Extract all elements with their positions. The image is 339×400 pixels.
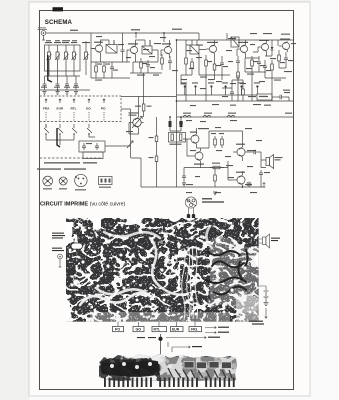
- resistor R7: [237, 68, 240, 101]
- wire osc vertical: [143, 73, 145, 117]
- IF transformer TR3: [190, 40, 199, 54]
- labels right-top extra: [149, 33, 290, 121]
- capacitor C8: [146, 60, 150, 73]
- ground G3: [65, 92, 69, 95]
- wire stage2 bottom: [130, 62, 162, 73]
- label vers +9V: [205, 326, 229, 328]
- trimmer arrows coils: [47, 54, 89, 60]
- dashed separator: [40, 157, 104, 159]
- speaker symbol right: [259, 234, 270, 248]
- capacitor C20 electrolytic: [259, 170, 263, 178]
- top right bus: [177, 39, 294, 41]
- lamp symbol LP1: [247, 182, 251, 187]
- resistor R20: [180, 134, 182, 141]
- node D: [176, 39, 178, 41]
- label P2: [259, 96, 267, 97]
- node F: [242, 186, 244, 188]
- transistor T4: [206, 45, 217, 54]
- label T5: [228, 38, 248, 43]
- label C24: [283, 90, 290, 91]
- photo light zone right: [160, 357, 237, 381]
- label T6: [259, 40, 269, 41]
- node A: [135, 32, 137, 34]
- resistor R12: [191, 58, 194, 75]
- wire ground row: [40, 76, 90, 90]
- mic solder nubs: [187, 214, 195, 219]
- label HP right: [271, 238, 280, 242]
- capacitor C9: [168, 56, 172, 70]
- transistor case view Q3: [75, 174, 87, 186]
- resistor R9: [278, 50, 281, 68]
- transistor T10: [233, 147, 245, 157]
- contact set K2: [58, 124, 63, 140]
- wire c24 to frame: [285, 97, 289, 101]
- lighter copper zone right: [207, 237, 258, 312]
- svg-text:GO: GO: [86, 107, 91, 111]
- svg-text:PO: PO: [115, 328, 120, 332]
- labels above coils: [45, 40, 90, 43]
- jack J1 prise casque: [41, 31, 46, 40]
- wire stage6: [253, 40, 278, 56]
- bus oscillator mid: [121, 96, 177, 98]
- transistor T9: [191, 151, 203, 161]
- inductor L4: [203, 115, 211, 117]
- label T1: [94, 42, 103, 43]
- label box: [86, 143, 92, 144]
- capacitor C16: [82, 143, 86, 150]
- lighter strip bottom: [90, 312, 230, 322]
- node B: [163, 32, 165, 34]
- coil L2: [85, 41, 88, 75]
- transistor T8: [187, 134, 199, 144]
- pushbutton box GO: [133, 327, 144, 332]
- transistor case view Q2: [59, 177, 67, 185]
- label prise antenne left: [52, 233, 65, 239]
- wire stage5: [227, 33, 246, 58]
- resistor R18: [142, 104, 145, 111]
- IF transformer TR4: [231, 37, 239, 47]
- contact set K3: [72, 124, 77, 140]
- label T8: [190, 128, 209, 133]
- capacitor C21: [182, 170, 186, 183]
- resistor R6: [213, 60, 216, 80]
- resistor R2: [103, 62, 106, 78]
- clavier dashed box SW1: [40, 96, 122, 122]
- label T12: [126, 112, 139, 132]
- node C: [57, 89, 59, 91]
- capacitor C24: [272, 95, 285, 99]
- label pile 9V: [249, 321, 264, 325]
- label T10: [236, 144, 256, 152]
- resistor R10: [271, 60, 274, 78]
- resistor R14: [214, 136, 217, 148]
- label mid amp: [211, 133, 224, 151]
- labels under case views: [43, 187, 111, 191]
- svg-text:PO: PO: [101, 107, 106, 111]
- wire c21: [184, 168, 201, 171]
- connector comb: [104, 378, 235, 388]
- wire C23: [170, 128, 181, 131]
- label R21 R22: [149, 137, 154, 158]
- label transistors legend: [37, 168, 86, 169]
- labels stage2: [137, 63, 159, 76]
- coil branch L1d: [73, 45, 76, 71]
- mid right bus: [177, 100, 294, 102]
- switch arrow S3: [73, 99, 75, 103]
- labels stage4: [200, 61, 228, 89]
- ground G5: [182, 183, 186, 186]
- svg-text:GO: GO: [136, 328, 142, 332]
- PCB photo component side: [99, 354, 237, 381]
- white strip left: [66, 222, 73, 239]
- long vertical wire V1: [176, 40, 178, 187]
- capacitor C23 dark: [180, 121, 183, 127]
- tuning box L1: [45, 45, 81, 71]
- bottom rule: [40, 389, 295, 391]
- resistor R15: [221, 136, 224, 148]
- plug symbol PL1: [263, 183, 266, 187]
- speaker LS1: [266, 155, 274, 169]
- label C20: [264, 172, 270, 173]
- wire misc1: [181, 45, 192, 101]
- trace bundle center: [182, 246, 198, 320]
- capacitor C15: [230, 88, 234, 101]
- svg-text:EUR: EUR: [57, 107, 64, 111]
- box relay: [83, 152, 103, 159]
- wire to amp: [105, 109, 131, 158]
- contact set K4: [87, 124, 92, 135]
- capacitor C11: [236, 56, 240, 68]
- wire stage4: [186, 33, 215, 60]
- diode DZ symbol: [159, 334, 163, 355]
- PCB copper plane: [66, 218, 259, 322]
- transistor T3: [161, 46, 172, 55]
- wire feedback vertical: [156, 117, 158, 187]
- IF transformer TR1: [106, 40, 117, 53]
- photo diagonal traces: [168, 368, 232, 378]
- labels bus right: [222, 83, 268, 97]
- labels bus2: [183, 113, 292, 114]
- trimmer arrow P1: [127, 141, 133, 148]
- label DZ C19: [137, 337, 156, 338]
- coil branch L1a: [48, 45, 51, 71]
- label prise casque left: [52, 248, 64, 252]
- wire bottom joiner: [131, 158, 177, 187]
- arrow pile: [265, 308, 267, 318]
- wire stage2: [127, 33, 158, 62]
- svg-text:SCHEMA: SCHEMA: [45, 19, 73, 26]
- label bias: [170, 144, 182, 145]
- capacitor C4: [56, 80, 60, 90]
- photo chip row: [184, 362, 232, 369]
- wire stage1 bottom: [91, 62, 130, 78]
- wire thick feed: [48, 55, 52, 82]
- border frame: [40, 11, 294, 390]
- capacitor C13: [284, 52, 288, 68]
- diode pack DZ: [99, 177, 113, 185]
- node E: [176, 100, 178, 102]
- microphone capsule M1: [185, 197, 196, 208]
- resistor R11: [185, 54, 188, 75]
- labels stage1: [95, 64, 118, 81]
- label R18: [135, 106, 152, 107]
- coil branch L1c: [65, 45, 68, 71]
- arrow vers HP bottom: [172, 346, 202, 348]
- transistor case view Q1: [43, 176, 53, 186]
- label T9: [194, 164, 204, 165]
- photo pads: [110, 358, 172, 369]
- transistor T12: [129, 117, 142, 129]
- wire T12 net: [129, 97, 144, 135]
- wire clavier joins: [46, 124, 95, 145]
- wire c20: [260, 178, 262, 187]
- svg-text:CIRCUIT IMPRIME (vu côté cuivr: CIRCUIT IMPRIME (vu côté cuivre): [40, 202, 125, 208]
- resistor R16 horizontal: [210, 166, 224, 169]
- capacitor C18: [179, 117, 183, 128]
- capacitor C22 dark: [169, 121, 172, 127]
- node H: [180, 116, 182, 118]
- switch arrow S1: [45, 99, 47, 103]
- wire stage7 bottom: [265, 51, 288, 102]
- label clavier legend: [44, 162, 97, 163]
- svg-text:FRA: FRA: [43, 107, 50, 111]
- ground G4: [74, 92, 78, 95]
- labels terminal row: [181, 82, 260, 83]
- label prise casque: [38, 27, 48, 30]
- wire misc2: [222, 75, 243, 88]
- wire stage3: [161, 33, 170, 58]
- diode D1: [271, 42, 274, 56]
- wire amp net: [183, 128, 243, 187]
- capacitor C5: [65, 80, 69, 90]
- capacitor C17: [95, 143, 99, 150]
- label T4: [196, 42, 218, 46]
- resistor R13: [242, 86, 245, 101]
- switch arrow S5: [103, 99, 105, 103]
- bottom amp bus: [177, 168, 266, 188]
- coil branch L1b: [56, 45, 59, 71]
- lighter corner bottom right: [236, 294, 259, 321]
- transistor T6: [258, 43, 269, 52]
- switch contacts row: [46, 112, 104, 121]
- label T11: [236, 172, 245, 173]
- transistor T5: [237, 45, 248, 54]
- capacitor C3: [43, 80, 47, 90]
- transistor T7: [279, 42, 290, 51]
- svg-text:RTL: RTL: [71, 107, 77, 111]
- ground G2: [56, 92, 60, 95]
- wire battery right: [259, 286, 266, 290]
- transistor T2: [127, 46, 138, 55]
- oval pad P1: [71, 243, 83, 249]
- ground G6: [213, 192, 217, 195]
- resistor R8: [251, 56, 254, 72]
- label T7: [280, 39, 296, 45]
- wire stage5 bottom: [245, 58, 266, 101]
- capacitor C6: [74, 80, 78, 90]
- label prise magnetophone: [202, 198, 224, 202]
- white flow channels: [80, 226, 212, 305]
- pushbutton box RTL: [152, 327, 167, 332]
- capacitor C10: [220, 56, 224, 75]
- photo dark bar left: [101, 361, 159, 377]
- copper pads: [69, 221, 255, 316]
- wire speaker net: [245, 152, 266, 168]
- switch arrow S4: [88, 99, 90, 103]
- white slot top: [93, 218, 101, 230]
- labels stage7: [266, 60, 293, 81]
- resistor R17: [214, 172, 217, 187]
- terminal stubs: [185, 88, 258, 95]
- svg-text:RTL: RTL: [154, 328, 161, 332]
- resistor R22: [155, 156, 158, 162]
- leader lines buttons: [118, 322, 195, 327]
- IF transformer TR2: [142, 40, 152, 54]
- bias box amp: [169, 133, 186, 143]
- copper edge scallops: [66, 218, 259, 321]
- capacitor C7: [110, 62, 114, 78]
- arrow vers +9V bottom: [166, 336, 220, 338]
- transistor T1: [92, 44, 103, 53]
- label T3: [162, 43, 171, 44]
- contact set K1: [44, 124, 49, 140]
- wire stub bottom: [168, 342, 172, 352]
- labels sprinkle: [96, 36, 290, 193]
- node G: [169, 116, 171, 118]
- wire antenna bus: [46, 32, 199, 34]
- resistor R21: [155, 136, 158, 142]
- label R16: [212, 163, 233, 167]
- resistor R4: [161, 54, 164, 70]
- jack symbol left: [58, 254, 63, 267]
- label speaker: [275, 157, 283, 160]
- capacitor C14: [263, 60, 267, 78]
- labels under caps: [41, 87, 79, 88]
- pushbutton box PO: [113, 327, 124, 332]
- transistor T11: [233, 175, 245, 185]
- photo chip outlines: [184, 362, 232, 369]
- resistor R3: [140, 58, 143, 73]
- terminal dot row: [184, 85, 259, 87]
- wire stage4 bottom: [199, 54, 230, 101]
- wire C22: [169, 117, 171, 131]
- resistor R19: [171, 134, 173, 141]
- wire thick clavier: [57, 128, 60, 147]
- battery connector BT1: [264, 291, 269, 306]
- capacitor C2: [121, 33, 125, 62]
- lower bus inductors: [177, 116, 294, 118]
- switch arrow S2: [59, 99, 61, 103]
- worm traces right zone: [206, 250, 248, 295]
- labels stage5: [247, 61, 265, 75]
- label T2: [128, 43, 138, 44]
- capacitor C19: [250, 150, 261, 154]
- resistor R1: [95, 62, 98, 78]
- pushbutton box EUR: [171, 327, 184, 332]
- volume pot box P2: [257, 94, 272, 100]
- inductor L3: [183, 115, 191, 117]
- wire box bottom join: [45, 71, 81, 76]
- ground G1: [43, 92, 47, 95]
- wire stage1: [91, 33, 130, 62]
- inductor L5: [227, 115, 235, 117]
- page number black tab: [53, 7, 64, 11]
- bus mid right: [177, 94, 258, 96]
- svg-text:EUR: EUR: [172, 328, 180, 332]
- label vers -9V: [205, 331, 229, 333]
- box C15 C16: [79, 141, 105, 152]
- pushbutton box FR1: [189, 327, 202, 332]
- label C1: [70, 29, 182, 31]
- svg-text:FR1: FR1: [191, 328, 198, 332]
- label V07: [186, 184, 252, 185]
- wire mic leads: [189, 208, 194, 218]
- capacitor C12: [257, 56, 261, 72]
- resistor R5: [205, 55, 208, 75]
